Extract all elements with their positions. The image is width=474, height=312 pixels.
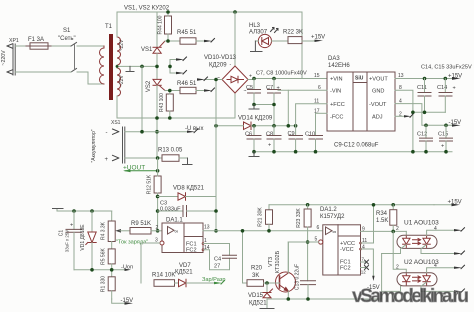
resistor R23 33K: [296, 205, 311, 281]
connector XS1: [91, 120, 125, 163]
wire bridge plus output to DA3 +VIN: [248, 79, 327, 80]
wire fuse to switch: [52, 45, 71, 47]
svg-text:4: 4: [434, 226, 437, 232]
optocoupler U2 AOU103: [396, 259, 454, 291]
svg-text:R14 10K: R14 10K: [152, 273, 175, 279]
capacitor C10: [305, 113, 323, 151]
net label -U вых: [185, 126, 204, 133]
svg-text:+15V: +15V: [448, 73, 462, 79]
pin 2 label: [399, 112, 402, 118]
junction VD1 bottom: [90, 268, 94, 272]
junction emitter at rail: [287, 297, 291, 301]
chassis stub on center tap: [126, 66, 134, 71]
junction VD15 at base wire: [265, 281, 269, 285]
svg-text:+: +: [268, 143, 271, 149]
secondary winding 1: [117, 37, 121, 65]
pin 6 label: [318, 85, 321, 91]
svg-text:VS2: VS2: [146, 80, 152, 92]
resistor R9 51K: [130, 221, 162, 234]
pin 11 dot: [359, 242, 362, 245]
ground for HL3: [251, 41, 263, 52]
label C9-C12 value: [334, 143, 379, 149]
wire +VOUT to +15V: [395, 78, 452, 80]
junction rail C6: [252, 150, 256, 154]
wire secondary bottom to ac wire: [117, 96, 235, 118]
capacitor C13 0.22uF: [295, 264, 316, 299]
junction C11 top: [423, 77, 427, 81]
wire pin6 branch down to VD14 row: [287, 90, 289, 126]
svg-text:2: 2: [396, 226, 399, 232]
wire GND pin8: [395, 90, 413, 151]
resistor R34 1.5K: [376, 205, 397, 232]
pin 14 dot: [202, 248, 205, 251]
resistor R5 56K: [101, 248, 116, 277]
wire top rail down to bridge ac input: [301, 12, 303, 79]
junction R43 top: [168, 89, 172, 93]
wire VS2 anode down through nodes: [156, 85, 158, 158]
junction pin11 at rail: [372, 203, 376, 207]
resistor R46 51: [177, 81, 204, 94]
junction R12 at DA1.1 input: [156, 229, 160, 233]
svg-text:R12 51K: R12 51K: [147, 174, 153, 194]
wire switch pole2 to transformer primary bottom: [77, 72, 104, 84]
svg-text:F1 3A: F1 3A: [28, 37, 44, 43]
junction R12 top at plus row: [156, 156, 160, 160]
junction C13 at rail: [306, 297, 310, 301]
svg-text:27: 27: [214, 264, 220, 270]
junction C5 top: [252, 77, 256, 81]
junction C8 top: [272, 124, 276, 128]
svg-text:C5: C5: [246, 85, 253, 91]
wire VS1 gate to R44/R45: [165, 40, 180, 42]
thyristor VS1: [153, 41, 165, 53]
svg-text:FC2: FC2: [340, 266, 351, 272]
svg-text:-VIN: -VIN: [330, 89, 341, 95]
svg-text:R44 100: R44 100: [158, 15, 164, 34]
svg-text:R1 330: R1 330: [101, 276, 107, 292]
pin 13 label: [204, 225, 210, 231]
junction R23 at +15V rail: [306, 203, 310, 207]
connector XP1: [1, 38, 19, 75]
regulator DA3 142ЕН6: [327, 56, 395, 131]
pin 11 label: [362, 238, 367, 244]
svg-text:VS1, VS2 КУ202: VS1, VS2 КУ202: [124, 6, 170, 12]
wire pin4 -VCC down to -15V: [361, 249, 374, 276]
svg-text:142ЕН6: 142ЕН6: [328, 63, 350, 69]
svg-text:R46 51: R46 51: [177, 81, 197, 87]
wire pin3 input: [141, 242, 160, 244]
pin 4 label: [362, 245, 365, 251]
svg-text:33uF x 25V: 33uF x 25V: [65, 230, 70, 253]
svg-text:2: 2: [396, 265, 399, 271]
wire DA1.2 output pin9: [361, 230, 407, 232]
junction GND at rail: [411, 150, 415, 154]
svg-text:R9 51K: R9 51K: [131, 221, 151, 227]
power +15V right: [434, 199, 462, 206]
svg-text:~220V: ~220V: [1, 50, 7, 66]
pin 11 label: [314, 99, 319, 105]
junction VS1 cathode node: [155, 65, 159, 69]
op-amp DA1.1: [160, 218, 203, 254]
svg-text:C6: C6: [245, 132, 252, 138]
wire -VIN pin6: [278, 89, 327, 91]
pin 1 dot: [202, 242, 205, 245]
svg-text:C13 0.22uF: C13 0.22uF: [295, 264, 301, 290]
junction pin6 branch: [287, 124, 291, 128]
junction minus x142: [140, 130, 144, 134]
junction GND wire crossing: [411, 111, 415, 115]
minus stub below C5: [249, 105, 259, 110]
wire switch pole1 to transformer primary top: [77, 45, 104, 47]
junction R23 at pin5 wire: [306, 240, 310, 244]
junction R44 top rail: [166, 10, 170, 14]
svg-text:FC2: FC2: [186, 248, 197, 254]
capacitor C5: [246, 79, 261, 105]
resistor R21 30K: [258, 205, 273, 231]
pin 13 label: [398, 73, 404, 79]
junction R5 R1 node: [110, 268, 114, 272]
junction VS2 at minus wire: [155, 130, 159, 134]
svg-text:XS1: XS1: [111, 120, 121, 126]
transistor VT3 КТ3102Б: [268, 242, 296, 299]
resistor R12 51K: [147, 158, 162, 231]
power -15V output: [449, 120, 462, 127]
svg-text:DA1.2: DA1.2: [320, 207, 337, 213]
pin arrow U2 top output: [454, 265, 465, 269]
wire secondary center tap: [117, 65, 157, 68]
svg-text:2: 2: [156, 225, 159, 231]
capacitor C12: [417, 125, 433, 151]
wire VS1 anode from top rail: [156, 12, 158, 47]
junction arrows node: [168, 65, 172, 69]
optocoupler U1 AOU103: [382, 220, 454, 254]
junction C12 top: [424, 124, 428, 128]
ground below VD15: [260, 308, 274, 310]
svg-text:R20: R20: [251, 266, 263, 272]
label C7 C8 value: [256, 71, 307, 77]
capacitor C14: [437, 79, 456, 113]
svg-text:~22V: ~22V: [119, 39, 125, 51]
wire U1 cathode chain down: [382, 254, 407, 300]
secondary winding 2: [117, 68, 121, 96]
svg-text:R45 51: R45 51: [177, 30, 197, 36]
svg-text:3K: 3K: [252, 273, 259, 279]
junction R21 at output row: [267, 229, 271, 233]
pin 2 label: [156, 225, 159, 231]
junction C7 top: [272, 77, 276, 81]
wire VS2 gate: [165, 90, 180, 92]
svg-text:SіU: SіU: [355, 76, 364, 82]
wire bridge ac left down to VD14 node: [215, 80, 217, 126]
junction R44 bottom gate wire: [166, 39, 170, 43]
power +15V output: [448, 73, 462, 80]
svg-text:+VIN: +VIN: [330, 77, 343, 83]
junction C7 bottom: [272, 103, 276, 107]
svg-text:R34: R34: [376, 211, 388, 217]
svg-text:+FCC: +FCC: [330, 102, 345, 108]
svg-text:C7: C7: [266, 85, 273, 91]
wire -FCC pin17: [316, 112, 328, 114]
svg-text:R21 30K: R21 30K: [258, 207, 264, 227]
capacitor C11: [417, 79, 431, 113]
power -15V DA1.2: [367, 276, 380, 291]
pin arrow R45 output: [204, 39, 215, 43]
svg-text:12: 12: [361, 270, 367, 275]
svg-text:C8: C8: [266, 132, 273, 138]
svg-text:-15V: -15V: [121, 298, 134, 304]
junction C5 bottom: [252, 103, 256, 107]
junction C15 top: [444, 124, 448, 128]
junction R34 at output wire: [391, 230, 395, 234]
svg-text:C14, C15 33uFх25V: C14, C15 33uFх25V: [421, 65, 472, 71]
chassis stub after R13: [183, 158, 193, 165]
pin 1 label: [204, 238, 207, 244]
svg-text:R4 3.3K: R4 3.3K: [101, 221, 107, 240]
svg-text:+: +: [105, 157, 109, 163]
svg-text:T1: T1: [105, 24, 113, 30]
svg-text:C11: C11: [417, 85, 427, 91]
junction bridge top at rail: [233, 10, 237, 14]
node arrows to control pins: [170, 57, 187, 74]
svg-text:К157УД2: К157УД2: [320, 214, 345, 220]
svg-text:VD14 КД209: VD14 КД209: [238, 116, 273, 122]
svg-text:∞: ∞: [333, 230, 337, 236]
junction C15 bottom: [444, 150, 448, 154]
svg-text:+: +: [70, 223, 73, 229]
junction VS2 at ac wire: [155, 116, 159, 120]
svg-text:КТ3102Б: КТ3102Б: [275, 250, 281, 273]
diode VD15 КД521: [248, 283, 273, 309]
svg-text:VS1: VS1: [141, 47, 153, 53]
power -15V below R1: [112, 298, 133, 305]
diode VD14 КД209: [238, 116, 273, 130]
svg-text:+15V: +15V: [311, 35, 325, 41]
diode VD8 КД521 feedback: [158, 186, 216, 201]
svg-text:0.033uF: 0.033uF: [160, 207, 181, 213]
junction C14 top: [444, 77, 448, 81]
resistor R45 51: [177, 30, 204, 44]
net label +UOUT: [123, 165, 159, 173]
pin 17 label: [314, 109, 320, 115]
svg-text:VD10-VD13: VD10-VD13: [204, 55, 237, 61]
wire pin5 to VT3 collector: [287, 242, 289, 273]
svg-text:ADJ: ADJ: [372, 115, 383, 121]
svg-text:VT3: VT3: [268, 257, 274, 267]
wire feed to U2 input: [393, 231, 406, 272]
svg-text:1.5K: 1.5K: [376, 218, 388, 224]
svg-text:+: +: [441, 144, 444, 150]
capacitor C4 27 on FC pins: [203, 244, 237, 270]
minus stub below rail left end: [249, 152, 259, 157]
capacitor C8: [266, 126, 281, 152]
label C14 C15 value: [421, 65, 472, 71]
svg-text:-: -: [106, 130, 108, 136]
svg-text:VD8 КД521: VD8 КД521: [173, 186, 205, 192]
pin 14 label: [204, 245, 210, 251]
junction C11 bottom: [423, 111, 427, 115]
diode bridge VD10-VD13 КД209: [204, 55, 252, 95]
trimmer R4 3.3K: [101, 211, 131, 249]
junction R20 branch: [241, 229, 245, 233]
junction rail C9: [294, 150, 298, 154]
junction VD1 top: [90, 209, 94, 213]
svg-text:13: 13: [204, 225, 210, 231]
primary winding: [100, 46, 105, 84]
svg-text:-15V: -15V: [449, 120, 462, 126]
svg-text:КД521: КД521: [249, 301, 267, 307]
resistor R44 100: [158, 12, 172, 41]
wire XP1 to fuse: [16, 45, 31, 47]
wire pin11 +VCC up to rail: [361, 205, 374, 243]
resistor R13 0.05 shunt: [158, 148, 188, 162]
pin 3 label: [155, 238, 158, 244]
junction C1 top: [72, 209, 76, 213]
net label -Uоп: [121, 265, 133, 272]
capacitor C7: [266, 79, 281, 126]
label VS1 VS2 part type: [124, 6, 170, 12]
svg-text:∞: ∞: [175, 229, 179, 235]
wire R20 branch from output row: [243, 231, 248, 283]
junction R12 bottom VD8 row: [156, 195, 160, 199]
pin arrow R46 output: [204, 88, 215, 92]
wire pin3 column down to R14: [140, 243, 142, 283]
wire emitter rail: [267, 298, 382, 300]
pin ADJ arrow: [395, 114, 413, 118]
wire VS1 cathode down: [156, 53, 158, 79]
wire C11 C14 bottoms: [413, 111, 445, 113]
junction C6 top: [252, 124, 256, 128]
watermark: [352, 285, 469, 307]
pin arrow U2 bottom output: [454, 289, 465, 293]
svg-text:15: 15: [314, 73, 320, 79]
wire XP1 bottom to switch pole2: [15, 71, 71, 73]
svg-text:C15: C15: [438, 132, 448, 138]
junction VD14 left node: [214, 124, 218, 128]
wire +FCC pin11: [296, 104, 327, 126]
capacitor C15: [438, 125, 453, 151]
diode VD7 КД521: [175, 263, 214, 287]
svg-text:-VOUT: -VOUT: [369, 102, 387, 108]
junction feedback at output: [214, 229, 218, 233]
pin 9 label: [362, 227, 365, 233]
resistor R22 3K: [283, 30, 313, 44]
svg-text:+VOUT: +VOUT: [369, 77, 388, 83]
svg-text:VD7: VD7: [179, 263, 191, 269]
resistor R43 100: [159, 91, 173, 119]
stub bar at rail left end: [53, 208, 64, 210]
label Ток заряда: [116, 240, 148, 246]
op-amp DA1.2 К157УД2: [319, 207, 361, 275]
capacitor C1 33uF x 25V: [59, 211, 83, 270]
pin 4 label: [399, 99, 402, 105]
svg-text:GND: GND: [372, 89, 384, 95]
pin 15 label: [314, 73, 320, 79]
svg-text:-VCC: -VCC: [340, 247, 354, 253]
resistor R1 330: [101, 276, 116, 299]
wire C5-C7 bottoms: [254, 104, 274, 106]
svg-text:HL3: HL3: [249, 23, 261, 29]
power +15V at R22: [311, 35, 325, 43]
svg-text:+: +: [453, 86, 456, 92]
svg-text:C4: C4: [214, 257, 221, 263]
svg-text:S1: S1: [63, 28, 71, 34]
bottom rail of reference block: [74, 269, 125, 271]
svg-text:vSamodelkina.ru: vSamodelkina.ru: [352, 285, 469, 307]
svg-text:+: +: [249, 74, 252, 80]
junction rail C8: [272, 150, 276, 154]
wire VD14 row: [216, 125, 296, 127]
junction at bridge left wire: [214, 78, 218, 82]
svg-text:R23 33K: R23 33K: [296, 208, 302, 228]
svg-text:R5 56K: R5 56K: [101, 248, 107, 265]
transformer T1: [100, 24, 126, 100]
svg-text:C9-C12 0.068uF: C9-C12 0.068uF: [334, 143, 379, 149]
wire DA1.1 output row: [203, 230, 323, 232]
fuse F1 3A: [26, 43, 52, 49]
no-connect FC1 pin: [361, 257, 369, 265]
wire XS1 minus row: [125, 131, 187, 133]
svg-text:4: 4: [362, 245, 365, 251]
svg-text:C10: C10: [305, 132, 315, 138]
svg-text:КД209: КД209: [209, 63, 227, 69]
junction R43 bottom ac wire: [168, 116, 172, 120]
svg-text:"Аккумулятор": "Аккумулятор": [91, 129, 97, 162]
svg-text:R13 0.05: R13 0.05: [158, 148, 183, 154]
capacitor C3 0.033uF feedback: [158, 201, 216, 217]
LED HL3 АЛ307: [249, 23, 288, 48]
junction center tap x142: [140, 65, 144, 69]
pin arrow U1 bottom output: [454, 251, 465, 255]
wire bridge bottom corner drop: [234, 93, 236, 118]
svg-text:-FCC: -FCC: [330, 115, 343, 121]
svg-text:R22 3K: R22 3K: [283, 30, 303, 36]
svg-text:VD1 Д818Е: VD1 Д818Е: [80, 224, 86, 251]
resistor R20 3K: [247, 266, 275, 287]
wire pin5 row: [288, 241, 318, 243]
no-connect FC2 pin: [361, 266, 369, 275]
pin 6 label: [317, 225, 320, 231]
capacitor C9: [288, 126, 303, 152]
svg-text:Зар/Разр: Зар/Разр: [202, 277, 225, 283]
net label Зар/Разр: [202, 277, 225, 284]
wire VD14 node down to feedback row: [215, 126, 217, 197]
svg-text:~22V: ~22V: [119, 74, 125, 86]
resistor R14 10K: [152, 273, 179, 287]
svg-text:КД521: КД521: [175, 270, 193, 276]
svg-text:DA3: DA3: [328, 56, 340, 62]
wire XS1 plus row: [125, 157, 163, 159]
pin arrow into bridge left: [197, 77, 222, 81]
wire bridge top corner to rail: [234, 12, 236, 66]
zener VD1 Д818Е: [80, 211, 96, 270]
junction C9 crossing: [294, 124, 298, 128]
svg-text:VD15: VD15: [248, 293, 264, 299]
wire +15V rail right section: [269, 204, 434, 206]
junction C12 bottom: [424, 150, 428, 154]
wire -VOUT pin4: [395, 104, 452, 126]
wire top rail: [117, 11, 302, 13]
pin 4 dot: [359, 248, 362, 251]
wire x142 down to minus wire: [141, 66, 143, 131]
svg-text:XP1: XP1: [9, 38, 19, 44]
junction C3 feedback: [214, 209, 218, 213]
junction R34 top at rail: [391, 203, 395, 207]
svg-text:R43 100: R43 100: [159, 93, 165, 112]
core: [109, 34, 113, 100]
svg-text:"Сеть": "Сеть": [58, 36, 76, 42]
pin arrow U1 top output: [454, 228, 465, 232]
wire ground rail y152: [254, 151, 452, 153]
